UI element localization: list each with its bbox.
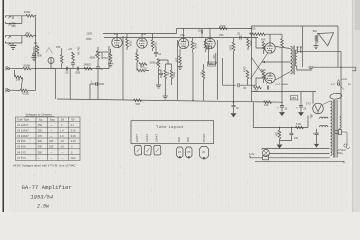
svg-text:+10: +10 — [68, 48, 73, 51]
plate resistor 220K — [126, 39, 129, 48]
svg-text:V6: V6 — [202, 151, 206, 154]
svg-text:V6 5Y3: V6 5Y3 — [17, 150, 26, 154]
svg-text:Tube Type: Tube Type — [17, 118, 30, 122]
svg-text:Tube Layout: Tube Layout — [156, 124, 184, 129]
upper grid wire — [245, 38, 265, 48]
svg-text:—: — — [50, 151, 53, 154]
svg-text:2MEG: 2MEG — [84, 62, 92, 66]
svg-text:1953/54: 1953/54 — [31, 194, 54, 200]
capacitor — [71, 63, 75, 64]
HV wire to rectifier — [323, 101, 331, 105]
svg-text:220K: 220K — [128, 41, 131, 47]
svg-text:.1: .1 — [91, 81, 94, 84]
screen resistor — [250, 33, 258, 36]
svg-text:3.15: 3.15 — [71, 128, 77, 132]
svg-text:220K: 220K — [87, 33, 93, 36]
svg-text:330: 330 — [38, 145, 43, 149]
resistor 500K — [23, 67, 31, 70]
cathode network — [136, 53, 139, 62]
svg-text:20: 20 — [285, 108, 288, 111]
svg-text:1M: 1M — [26, 31, 31, 35]
jack J2 contact — [8, 23, 11, 25]
svg-text:1.6: 1.6 — [60, 134, 64, 138]
svg-text:+: + — [296, 106, 298, 110]
plate resistor — [151, 40, 154, 49]
jack J4 contact — [8, 43, 11, 45]
short wire — [96, 51, 108, 53]
decoupling cap 3 — [233, 102, 235, 105]
svg-text:2.5w: 2.5w — [37, 203, 50, 209]
svg-text:-19: -19 — [60, 139, 64, 143]
svg-text:250: 250 — [291, 96, 296, 100]
25K to ground — [278, 130, 281, 139]
svg-text:4700: 4700 — [220, 24, 226, 28]
svg-text:8Ω: 8Ω — [348, 84, 351, 86]
svg-text:Voltages to Chassis: Voltages to Chassis — [26, 113, 53, 117]
resistor 1MEG — [26, 15, 34, 18]
grounds — [156, 85, 161, 88]
svg-text:100K: 100K — [154, 42, 157, 48]
svg-text:500K: 500K — [24, 64, 31, 68]
svg-text:220K: 220K — [229, 45, 232, 51]
jack J1 contact — [8, 16, 11, 19]
svg-text:117VAC: 117VAC — [337, 148, 346, 152]
jack J5 — [6, 66, 10, 70]
svg-text:3.1: 3.1 — [71, 123, 75, 127]
svg-text:150: 150 — [254, 89, 259, 92]
svg-text:6V6: 6V6 — [177, 137, 181, 142]
svg-text:25K 1W: 25K 1W — [76, 47, 79, 56]
cap on upper rail — [201, 30, 202, 34]
svg-text:+325: +325 — [250, 27, 257, 31]
svg-text:Ek: Ek — [61, 118, 65, 122]
svg-text:330: 330 — [38, 139, 43, 143]
grid feed vertical — [177, 40, 179, 100]
octal bases — [177, 147, 184, 157]
svg-text:6.3V: 6.3V — [249, 152, 255, 156]
svg-text:All DC Voltages taken with V.T: All DC Voltages taken with V.T.V.M. Line… — [13, 164, 76, 168]
svg-text:Eh: Eh — [72, 118, 76, 122]
upper rail — [177, 27, 252, 29]
resistor 470K — [20, 89, 28, 92]
svg-text:V5: V5 — [187, 151, 191, 154]
svg-text:OUT TRANS: OUT TRANS — [276, 83, 289, 86]
svg-text:450K: 450K — [86, 38, 92, 41]
cap 150 — [291, 128, 293, 133]
svg-text:5.6K: 5.6K — [296, 122, 302, 126]
cathode bias — [253, 86, 261, 89]
svg-text:25K: 25K — [275, 132, 278, 137]
svg-text:GA-77 Amplifier: GA-77 Amplifier — [22, 184, 72, 191]
AC plug — [335, 130, 342, 135]
coupling caps — [66, 67, 67, 71]
svg-text:325: 325 — [49, 145, 54, 149]
boxed 250 — [290, 96, 298, 100]
resistor 500 on bus — [134, 99, 142, 102]
resistor 25K — [60, 55, 63, 64]
svg-text:6V6: 6V6 — [186, 137, 190, 142]
svg-text:8Ω: 8Ω — [313, 29, 318, 33]
svg-text:6V6: 6V6 — [261, 38, 266, 42]
svg-text:7AC: 7AC — [71, 156, 76, 160]
svg-text:V7 5Y3: V7 5Y3 — [17, 156, 26, 160]
5.6K resistor — [296, 126, 304, 129]
svg-text:10: 10 — [100, 68, 103, 71]
jack pair 2 loop — [5, 36, 25, 46]
small resistor — [310, 114, 312, 118]
svg-text:—: — — [50, 135, 53, 138]
svg-text:V2a: V2a — [180, 33, 185, 37]
svg-text:450K: 450K — [90, 57, 96, 60]
svg-text:500K: 500K — [100, 53, 104, 59]
svg-text:5Y3GT: 5Y3GT — [202, 133, 206, 142]
svg-text:V2b: V2b — [219, 33, 224, 37]
jack pair 1 loop — [5, 16, 26, 24]
svg-text:.02: .02 — [198, 30, 202, 33]
svg-text:150: 150 — [294, 137, 299, 140]
rectifier feed vertical — [312, 92, 314, 104]
coupling cap — [96, 82, 97, 86]
electro cap — [154, 52, 158, 53]
svg-text:—: — — [61, 157, 64, 160]
filter cap A — [280, 106, 284, 107]
ground — [10, 46, 17, 50]
svg-text:60cy: 60cy — [338, 151, 344, 155]
jack J6 — [6, 88, 10, 92]
svg-text:4700: 4700 — [243, 66, 246, 72]
grid resistor — [36, 45, 39, 54]
svg-text:1.5K: 1.5K — [175, 58, 178, 63]
boxed voltage — [207, 62, 215, 66]
filter cap B — [300, 92, 302, 106]
svg-text:3.15: 3.15 — [71, 134, 77, 138]
svg-text:470K: 470K — [22, 92, 29, 96]
svg-text:—: — — [61, 151, 64, 154]
svg-text:10K: 10K — [264, 103, 269, 107]
speaker line right — [318, 51, 341, 117]
resistor 2MEG — [84, 67, 92, 70]
svg-text:+: + — [277, 106, 279, 110]
svg-text:.02: .02 — [243, 87, 247, 90]
ext jack — [337, 83, 339, 85]
volume pot 2 — [48, 58, 54, 64]
wire to bus — [34, 15, 36, 17]
svg-text:10: 10 — [158, 53, 161, 56]
svg-text:1M: 1M — [34, 42, 37, 45]
svg-text:150: 150 — [38, 123, 43, 127]
svg-text:0: 0 — [71, 145, 73, 149]
filament windings — [320, 117, 328, 127]
svg-text:—: — — [50, 124, 53, 127]
cathode — [179, 56, 182, 65]
cathode resistor 2700 — [109, 53, 112, 62]
grid resistors — [262, 42, 265, 51]
resistor 2M — [164, 70, 167, 79]
svg-text:+: + — [266, 83, 268, 86]
svg-text:500K: 500K — [150, 62, 156, 65]
svg-text:V3 12AX7: V3 12AX7 — [17, 134, 29, 138]
hanging plate resistors — [191, 41, 194, 50]
svg-text:—: — — [50, 157, 53, 160]
svg-text:2M: 2M — [166, 72, 169, 75]
resistor 68K small — [12, 23, 16, 25]
svg-text:.005: .005 — [75, 70, 81, 74]
long vertical — [122, 36, 124, 99]
right PT winding — [340, 117, 341, 130]
resistor 1MEG — [25, 34, 33, 37]
svg-text:1K: 1K — [144, 68, 147, 71]
lower coupling path — [223, 58, 237, 85]
svg-text:20: 20 — [304, 108, 307, 111]
PI cross diagonals — [251, 53, 269, 81]
input bus vertical — [35, 17, 37, 91]
wire — [55, 69, 57, 99]
volume pot 500K — [97, 51, 100, 60]
svg-text:5: 5 — [71, 150, 73, 154]
svg-text:500: 500 — [136, 102, 141, 106]
signal run — [104, 37, 258, 39]
svg-text:12AX7: 12AX7 — [155, 133, 159, 142]
jack J3 contact — [8, 36, 11, 39]
small tube squares — [134, 145, 141, 155]
svg-text:Ep: Ep — [39, 118, 43, 122]
svg-text:10K: 10K — [212, 55, 215, 60]
transformer top oval — [330, 93, 342, 100]
svg-text:.02: .02 — [65, 70, 69, 74]
svg-text:V5 6V6: V5 6V6 — [17, 145, 26, 149]
grid wire — [36, 46, 110, 69]
svg-text:2: 2 — [61, 123, 63, 127]
svg-text:—: — — [38, 157, 41, 160]
svg-text:.02: .02 — [237, 33, 241, 36]
svg-text:SPKR: SPKR — [341, 79, 347, 81]
svg-text:250K: 250K — [194, 43, 197, 49]
svg-text:170: 170 — [38, 134, 43, 138]
long vertical — [192, 52, 194, 100]
svg-text:EXT: EXT — [331, 84, 336, 86]
secondary out — [297, 51, 318, 70]
svg-text:25K: 25K — [56, 46, 61, 49]
svg-text:V2 12AX7: V2 12AX7 — [17, 128, 29, 132]
ext speaker line — [312, 67, 356, 71]
svg-text:V4: V4 — [178, 151, 182, 154]
svg-text:5Y3: 5Y3 — [306, 102, 311, 106]
svg-text:200: 200 — [38, 128, 43, 132]
page right edge — [352, 0, 354, 212]
svg-text:500K: 500K — [172, 72, 175, 78]
svg-text:1M: 1M — [16, 77, 21, 81]
svg-text:68K: 68K — [11, 24, 16, 28]
svg-text:—: — — [50, 129, 53, 132]
left B+ rail — [103, 28, 177, 33]
resistor 500K tone — [170, 70, 173, 79]
svg-text:12AY7: 12AY7 — [135, 134, 139, 142]
svg-text:1K: 1K — [200, 72, 203, 75]
plate wires to OT — [275, 47, 290, 81]
resistor in rail — [219, 27, 227, 30]
svg-text:V1a: V1a — [114, 32, 119, 36]
svg-text:1MΩ: 1MΩ — [24, 10, 31, 14]
svg-text:325: 325 — [49, 139, 54, 143]
svg-text:3.15: 3.15 — [71, 139, 77, 143]
plate to rail — [116, 34, 118, 38]
terminal strip — [296, 47, 302, 53]
svg-text:Esg: Esg — [50, 118, 55, 122]
tone pot 500K — [157, 59, 160, 68]
center tap down to B+ — [262, 62, 291, 106]
svg-text:V1 12AY7: V1 12AY7 — [17, 123, 29, 127]
svg-text:350: 350 — [38, 150, 43, 154]
svg-text:40: 40 — [236, 107, 239, 110]
svg-text:12AX7: 12AX7 — [145, 133, 149, 142]
cap + ground under rectifier — [315, 133, 319, 134]
resistor 10K in bus — [264, 101, 272, 104]
resistor 25K 1W — [72, 52, 75, 61]
svg-text:-19: -19 — [60, 145, 64, 149]
resistor 1M diagonal — [14, 75, 22, 79]
svg-text:1.4: 1.4 — [60, 128, 64, 132]
svg-text:450K: 450K — [37, 55, 43, 58]
